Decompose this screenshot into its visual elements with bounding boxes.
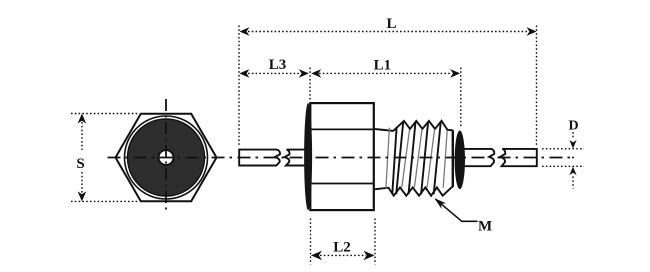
dimension L2: dimension line	[320, 254, 366, 256]
hex nut front view: hexagon body	[116, 114, 217, 201]
dimension L: left extension line	[238, 26, 240, 148]
dimension L1: dimension line	[319, 72, 452, 74]
left lead segment A	[239, 150, 280, 166]
svg-text:L: L	[386, 16, 396, 32]
dimension S: bottom arrow	[78, 191, 87, 201]
hex body side view rectangle	[310, 103, 374, 210]
right lead segment D (after break)	[500, 149, 537, 166]
dimension S: top arrow	[78, 114, 87, 124]
svg-text:L2: L2	[333, 239, 351, 255]
dimension L: left arrow	[239, 27, 249, 36]
svg-text:S: S	[76, 156, 84, 172]
thread crest black line (run-out)	[392, 127, 396, 194]
thread callout M: leader line	[436, 199, 478, 221]
dimension S: dimension line lower part	[81, 172, 83, 193]
flange washer ellipse (dark)	[304, 103, 312, 210]
dimension D: bottom stem	[572, 177, 574, 189]
dimension S: dimension line upper part	[81, 122, 83, 150]
svg-text:D: D	[568, 119, 578, 134]
thread bottom outline	[374, 187, 453, 196]
dimension S: top extension line	[71, 113, 139, 115]
dimension D: center dot	[572, 157, 574, 159]
dimension L2: left extension line	[310, 219, 312, 265]
dimension L1: left arrow	[311, 69, 321, 78]
dimension L3: right arrow	[299, 69, 309, 78]
hex nut front view: dark diode body circle	[128, 119, 205, 196]
thread root gray line 3	[427, 130, 434, 188]
dimension D: top extension line	[542, 148, 584, 150]
right lead segment C	[463, 149, 494, 166]
thread root gray line 4	[443, 130, 447, 187]
dimension L: right extension line	[536, 26, 538, 147]
svg-text:L1: L1	[374, 57, 392, 73]
hex body side view upper flat line	[311, 128, 374, 130]
thread root gray line 2	[414, 130, 422, 188]
thread end vertical line	[452, 130, 454, 187]
dimension L3: left arrow	[239, 69, 249, 78]
svg-text:M: M	[478, 218, 492, 234]
thread root gray line (run-out)	[386, 128, 390, 189]
dimension D: top arrow	[569, 140, 576, 149]
dimension D: bottom arrow	[569, 167, 576, 176]
dimension D: bottom extension line	[542, 165, 584, 167]
dimension L2: right arrow	[364, 251, 375, 260]
left lead segment B (after break)	[284, 150, 307, 166]
stud end cap (dark)	[455, 131, 465, 190]
front view vertical centerline	[165, 99, 167, 214]
dimension L1 right extension line at stud end	[460, 68, 462, 129]
hex nut front view: outer washer circle	[125, 116, 208, 199]
thread crest black line 2	[409, 122, 416, 194]
dimension L: dimension line	[248, 31, 528, 33]
svg-text:L3: L3	[269, 57, 287, 73]
dimension L: right arrow	[527, 27, 537, 36]
hex body side view lower flat line	[311, 183, 374, 185]
thread crest black line 1	[396, 122, 403, 194]
dimension L3/L1 shared extension line at flange	[309, 68, 311, 102]
thread crest black line 4	[434, 122, 441, 194]
dimension D: top stem	[572, 132, 574, 139]
hex nut front view: center stud hole	[159, 150, 174, 165]
dimension L2: left arrow	[311, 251, 322, 260]
thread callout M: arrowhead	[435, 198, 447, 209]
thread crest black line 3	[421, 122, 428, 194]
dimension L2: right extension line	[374, 219, 376, 265]
thread root gray line 1	[402, 130, 410, 188]
dimension L3: dimension line	[248, 72, 301, 74]
thread top outline	[374, 121, 453, 131]
dimension S: bottom extension line	[71, 200, 139, 202]
main horizontal centerline	[102, 157, 572, 159]
dimension L1: right arrow	[450, 69, 460, 78]
